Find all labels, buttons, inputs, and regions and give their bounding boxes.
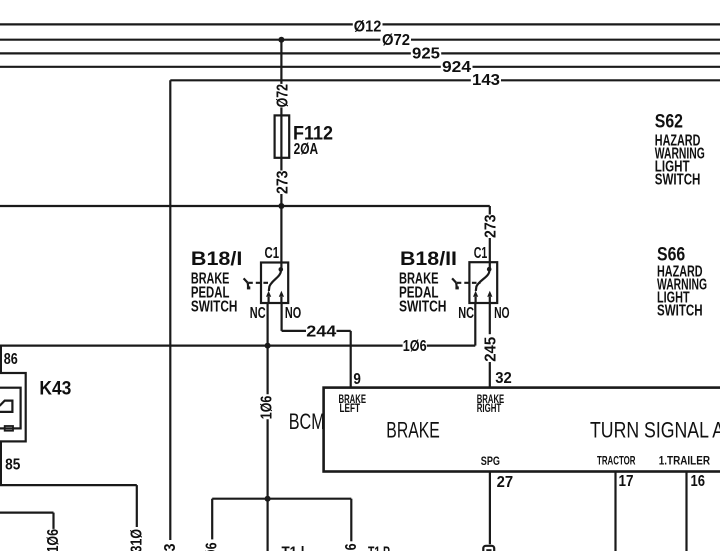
svg-text:SWITCH: SWITCH (399, 299, 447, 316)
svg-text:1Ø6: 1Ø6 (204, 542, 221, 551)
svg-text:C1: C1 (474, 245, 488, 262)
svg-text:924: 924 (442, 59, 471, 76)
svg-text:NC: NC (250, 305, 266, 322)
svg-text:32: 32 (495, 370, 512, 387)
wire K43 pin 86 (0, 346, 2, 373)
svg-text:273: 273 (274, 170, 291, 194)
B18/II NC contact (475, 297, 477, 303)
junction dot NC/106 line (265, 343, 271, 349)
svg-text:17: 17 (619, 473, 634, 490)
svg-text:16: 16 (691, 473, 706, 490)
wire 310 vertical (136, 485, 138, 527)
B18/II top contact dot (487, 267, 492, 272)
wire 310 horizontal (0, 484, 137, 486)
svg-text:1Ø6: 1Ø6 (343, 543, 360, 551)
wire 925 bus line (0, 52, 411, 54)
svg-text:NO: NO (494, 305, 510, 322)
svg-text:86: 86 (4, 351, 18, 368)
wire 106 bottom-left vertical (52, 513, 54, 529)
relay K43 outer box (0, 373, 26, 441)
B18/II pedal actuator symbol (452, 278, 456, 282)
wire 072 bus line (0, 39, 380, 41)
B18/II actuator dashed link (457, 282, 481, 284)
wire BCM pin 17 (614, 472, 616, 551)
svg-text:Ø72: Ø72 (274, 84, 291, 108)
B18/II NO contact (489, 297, 491, 303)
wire 012 bus line (0, 23, 353, 25)
svg-text:SWITCH: SWITCH (655, 171, 701, 188)
wire BCM pin 27 (489, 472, 491, 545)
connector terminal at pin 27 wire (483, 546, 494, 551)
wire 106 rise to B18/II NC (474, 303, 476, 346)
svg-text:1Ø6: 1Ø6 (403, 338, 427, 355)
junction dot at fuse wire (278, 203, 284, 209)
svg-text:BCM: BCM (289, 409, 325, 434)
svg-text:TURN SIGNAL A: TURN SIGNAL A (590, 418, 720, 443)
fuse F112 (275, 115, 290, 157)
svg-text:925: 925 (412, 46, 440, 63)
wire 143 bus line (170, 79, 471, 81)
B18/I NO contact (280, 297, 282, 303)
wire 273 from fuse to node (280, 194, 282, 269)
svg-text:TRACTOR: TRACTOR (597, 454, 636, 467)
svg-text:Ø12: Ø12 (354, 19, 382, 36)
svg-text:NO: NO (285, 305, 301, 322)
wire 273 branch to B18/II (489, 206, 491, 215)
K43 lower contact mark (5, 426, 13, 431)
wire 924 bus line (0, 66, 441, 68)
svg-text:244: 244 (306, 324, 336, 341)
switch B18/II box (469, 262, 497, 303)
K43 inner box (0, 388, 21, 429)
svg-text:K43: K43 (39, 377, 71, 399)
junction dot NC/bottom branch (265, 496, 271, 502)
svg-text:SWITCH: SWITCH (191, 299, 238, 316)
svg-text:RIGHT: RIGHT (477, 402, 502, 415)
svg-text:T1.P: T1.P (368, 545, 390, 551)
wire bottom branch left leg (211, 499, 213, 540)
svg-text:1.TRAILER: 1.TRAILER (659, 454, 711, 467)
wire from 072 bus to fuse (280, 40, 282, 84)
svg-text:27: 27 (497, 474, 514, 491)
svg-text:SPG: SPG (481, 455, 500, 468)
BCM box (324, 388, 720, 472)
B18/I pedal actuator symbol (244, 278, 248, 282)
wire 106 horizontal line (0, 345, 403, 347)
wire 143 vertical drop (169, 80, 171, 540)
svg-text:S62: S62 (655, 111, 683, 133)
B18/I switch arm (269, 270, 281, 291)
svg-text:143: 143 (472, 72, 500, 89)
svg-text:Ø72: Ø72 (382, 32, 410, 49)
svg-text:S66: S66 (657, 243, 685, 265)
svg-text:NC: NC (458, 305, 474, 322)
wire bottom branch horizontal (212, 498, 351, 500)
B18/I actuator dashed link (248, 282, 272, 284)
wire 245 from B18/II NO to BCM pin 32 (489, 303, 491, 334)
svg-text:85: 85 (5, 456, 20, 473)
wire K43 pin 85 (0, 441, 2, 485)
K43 contact flag (0, 401, 12, 412)
svg-text:B18/I: B18/I (191, 248, 243, 270)
wire horizontal node line y206 (0, 205, 490, 207)
switch B18/I box (261, 263, 288, 304)
B18/I NC contact (268, 297, 270, 303)
svg-text:SWITCH: SWITCH (657, 303, 703, 320)
svg-text:BRAKE: BRAKE (386, 418, 440, 443)
B18/I top contact dot (279, 267, 284, 272)
B18/II switch arm (476, 270, 490, 291)
svg-text:LEFT: LEFT (340, 402, 361, 415)
junction on 072 bus (278, 37, 284, 43)
svg-text:1Ø6: 1Ø6 (258, 396, 275, 420)
svg-text:245: 245 (482, 337, 499, 362)
svg-text:C1: C1 (265, 245, 280, 262)
wire BCM pin 16 (685, 472, 687, 551)
svg-text:B18/II: B18/II (400, 248, 457, 270)
wire 244 from B18/I NO to BCM pin 9 (281, 303, 283, 331)
wire 106 from B18/I NC down (267, 303, 269, 394)
svg-text:273: 273 (483, 214, 500, 238)
wire 106 bottom-left horizontal (0, 511, 54, 513)
wire bottom branch right leg (350, 499, 352, 542)
svg-text:1Ø6: 1Ø6 (45, 529, 62, 551)
svg-text:2ØA: 2ØA (294, 141, 319, 158)
svg-text:T1.l: T1.l (282, 545, 305, 551)
svg-text:143: 143 (162, 543, 179, 551)
svg-text:31Ø: 31Ø (128, 529, 145, 551)
svg-text:9: 9 (353, 371, 361, 388)
